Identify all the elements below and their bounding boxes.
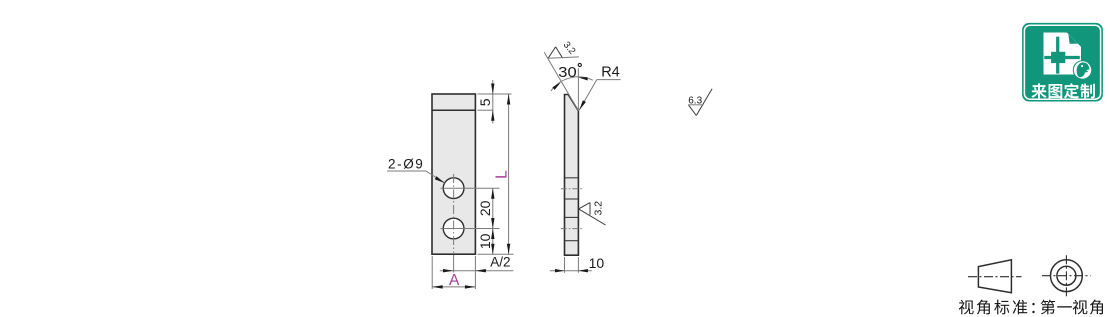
- svg-text:6.3: 6.3: [688, 96, 702, 107]
- svg-text:R4: R4: [601, 65, 620, 81]
- svg-text:L: L: [494, 170, 511, 179]
- svg-text:30: 30: [558, 65, 577, 81]
- svg-text:5: 5: [477, 98, 493, 106]
- svg-text:A: A: [449, 272, 460, 289]
- svg-text:2-Ø9: 2-Ø9: [388, 156, 424, 171]
- svg-text:3.2: 3.2: [593, 201, 605, 216]
- svg-text:10: 10: [589, 255, 605, 271]
- svg-text:20: 20: [477, 200, 493, 216]
- svg-text:A/2: A/2: [490, 254, 510, 269]
- svg-text:3.2: 3.2: [561, 40, 578, 57]
- svg-text:10: 10: [477, 233, 493, 249]
